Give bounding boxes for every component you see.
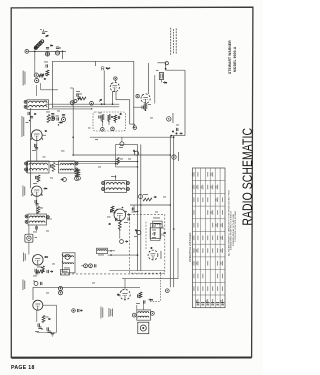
table tube-name bottom row labels bbox=[196, 302, 224, 305]
wire mid row y162-2 bbox=[70, 162, 116, 164]
resistor R8 with circle bbox=[75, 170, 79, 181]
resistor R5b in dashed box bbox=[114, 113, 122, 123]
capacitor C8 bbox=[57, 117, 59, 125]
tube V1 grid cap bbox=[114, 77, 117, 83]
resistor R4 in dashed box bbox=[99, 113, 104, 127]
B-plus bus wire pair A bbox=[138, 144, 141, 271]
chassis dashed separator bbox=[60, 273, 165, 275]
wire feeds to V2 bbox=[148, 63, 154, 104]
antenna terminal post bbox=[25, 50, 29, 54]
T4 right pins bbox=[47, 216, 53, 219]
resistor R1b beside RF coil bbox=[39, 73, 46, 80]
capacitor C11 below V3 bbox=[35, 196, 39, 214]
svg-text:C VOLUME CONTROL AT MAX: C VOLUME CONTROL AT MAX bbox=[234, 210, 237, 242]
vertical label antenna section bbox=[23, 71, 26, 86]
gang capacitor section C6 bbox=[62, 115, 66, 122]
tone pot circle bbox=[134, 229, 141, 237]
junction dots right of box bbox=[108, 250, 138, 256]
circled test point mid right bbox=[167, 113, 174, 123]
wire RF coil bottom bend bbox=[36, 83, 58, 96]
label R-7 and test arrows bbox=[101, 67, 110, 73]
speaker box bbox=[138, 322, 149, 334]
volume pot circle bbox=[133, 150, 139, 156]
audio output tube V4 50C5 bbox=[33, 254, 44, 265]
IF transformer T4 third bbox=[28, 214, 47, 225]
capacitor C12 below T4 bbox=[33, 225, 37, 232]
output transformer T7 box bbox=[137, 310, 151, 320]
svg-text:OPERATING VOLTAGES: OPERATING VOLTAGES bbox=[188, 232, 192, 262]
wire antenna drop bbox=[34, 51, 36, 61]
vertical wire x185 bbox=[184, 70, 186, 135]
variable capacitor C2A section bbox=[45, 45, 53, 56]
wire RF row upper bbox=[53, 106, 120, 108]
wire AVC drop left bbox=[26, 162, 28, 174]
antenna trimmer capacitor C1 bbox=[40, 29, 48, 37]
junction cluster at bus top bbox=[172, 125, 182, 135]
vertical text STEWART WARNER MODEL bbox=[228, 40, 237, 74]
table footnotes rotated bbox=[227, 190, 237, 256]
terminal box small bbox=[61, 270, 70, 276]
wire row solid above bbox=[109, 270, 165, 272]
variable cap rotor arrow bbox=[99, 99, 102, 105]
vertical title RADIO SCHEMATIC bbox=[239, 128, 255, 226]
wire rect right bbox=[43, 305, 57, 332]
arrow test point a bbox=[59, 122, 63, 124]
border frame of schematic sheet bbox=[11, 7, 253, 358]
capacitor C9 below V2 bbox=[32, 144, 38, 151]
B-plus bus wire pair B bbox=[170, 136, 173, 287]
tone section dashed box bbox=[130, 214, 165, 273]
resistor R12 in box bbox=[116, 158, 123, 165]
svg-text:PAGE 18: PAGE 18 bbox=[11, 365, 35, 371]
vertical wire x73 bbox=[72, 88, 74, 155]
wire tube V1 to bus bbox=[112, 91, 135, 124]
wire right drop bbox=[62, 51, 64, 59]
IF transformer T2 primary bbox=[28, 161, 50, 173]
filter capacitor C14 electrolytic bbox=[35, 323, 43, 332]
loop antenna L1 diagonal coil bbox=[34, 40, 44, 50]
RF coil upper circle bbox=[34, 73, 38, 77]
IF amplifier tube V3 12BA6 bbox=[32, 186, 42, 196]
RF coil lower circle bbox=[35, 79, 39, 83]
vertical label RF AMP 12BA6 bbox=[22, 116, 25, 137]
vertical label IF AMP 12BA6 second bbox=[23, 186, 26, 197]
tube V2 components below bbox=[133, 104, 151, 111]
svg-text:T: T bbox=[153, 232, 156, 238]
left misc components bottom bbox=[72, 309, 83, 313]
AVC filter dashed box bbox=[93, 112, 126, 131]
variable capacitor C2B section bbox=[55, 47, 60, 55]
wire left column bus bbox=[30, 108, 32, 188]
filter capacitor C15 electrolytic bbox=[47, 327, 52, 333]
resistor R2 horizontal bbox=[77, 94, 86, 100]
wire stub in box bbox=[95, 61, 97, 66]
wire row y205 bbox=[130, 204, 170, 206]
svg-text:STEWART WARNER: STEWART WARNER bbox=[228, 40, 232, 74]
tube V3 pin marks bbox=[31, 188, 48, 196]
misc label smudges bbox=[43, 100, 167, 294]
volume control box bbox=[116, 144, 138, 167]
wire V8 top bbox=[122, 248, 178, 289]
wire right feed top bbox=[158, 63, 186, 70]
gang capacitor section C5 bbox=[51, 114, 55, 121]
IF transformer T1 first bbox=[27, 100, 49, 110]
junction circle G1 bbox=[90, 101, 94, 105]
phono tube V7 dashed envelope bbox=[148, 250, 158, 260]
oscillator tube V2 dashed envelope bbox=[141, 94, 150, 103]
label cluster mid bbox=[132, 209, 137, 213]
wire bottom return bbox=[37, 310, 57, 332]
circled test point x174 bbox=[172, 152, 179, 161]
arrow test point c bbox=[44, 256, 48, 258]
tube V2 pin marks bbox=[31, 130, 48, 140]
table cell values text bbox=[192, 172, 223, 304]
wire antenna drop to coil bbox=[34, 61, 36, 73]
wire detector drop bbox=[28, 225, 30, 234]
T6 pin circles left bbox=[102, 182, 105, 191]
detector tube V6 12AV6 cluster bbox=[114, 209, 126, 221]
switch box bbox=[150, 228, 166, 239]
capacitor cluster below T1 pins bbox=[26, 112, 37, 123]
junction dot feed bbox=[165, 62, 169, 70]
padder capacitor C4 bbox=[76, 91, 82, 100]
V6 grid resistor bbox=[118, 221, 121, 231]
table title OPERATING VOLTAGES bbox=[188, 232, 192, 262]
speaker connection dots bbox=[62, 254, 63, 262]
IF transformer T6 detector bbox=[105, 181, 127, 193]
IF transformer T3 secondary bbox=[59, 161, 76, 173]
dashed wire to switch bbox=[150, 272, 161, 301]
page number PAGE 18 bbox=[11, 365, 35, 371]
T7 side circles bbox=[132, 312, 154, 318]
circled terminal right of dashed box bbox=[133, 124, 137, 129]
oscillator tube V1 12BE6 dashed envelope bbox=[110, 82, 119, 91]
misc junction dots on buses bbox=[72, 103, 138, 167]
phono pickup tube V8 dashed bbox=[120, 289, 130, 299]
circled tap on row bbox=[119, 137, 124, 148]
V6 surrounding components bbox=[107, 206, 130, 225]
resistor R7 between transformers bbox=[51, 163, 59, 172]
wire AC row bbox=[33, 286, 140, 288]
dial lamps pair bbox=[81, 264, 96, 268]
circled terminal 1 below dashed box bbox=[111, 127, 115, 131]
capacitor C3 with resistor R1 bbox=[42, 62, 49, 77]
V7 label smudge bbox=[160, 251, 163, 259]
T2 pin circles bbox=[25, 162, 28, 171]
wire T7 to V8 bbox=[137, 301, 144, 310]
wire V2 cathode bbox=[36, 141, 38, 162]
tube V2 grid cap bbox=[136, 95, 139, 98]
T6 pin circles right bbox=[126, 182, 129, 191]
resistor R9 above T4 bbox=[37, 207, 43, 214]
node junction antenna bbox=[34, 51, 36, 53]
filter resistor R11 bbox=[42, 316, 50, 323]
wire C17 down arrow bbox=[161, 80, 167, 84]
bus B junctions bbox=[170, 136, 175, 229]
T1 pin circles bbox=[24, 100, 27, 108]
rectifier tube V5 35W4 bbox=[33, 300, 43, 310]
vertical label AUDIO OUT 50C5 bbox=[23, 253, 26, 262]
line switch circles bbox=[59, 287, 63, 295]
V8 right components bbox=[136, 292, 153, 304]
wire V6 down bbox=[120, 229, 128, 243]
svg-text:RADIO SCHEMATIC: RADIO SCHEMATIC bbox=[239, 128, 255, 226]
RF-oscillator section box bbox=[53, 61, 134, 128]
terminal strip N panel bbox=[151, 223, 165, 240]
wire x73 top bend bbox=[70, 87, 73, 89]
capacitor C13 below V4 bbox=[33, 266, 44, 276]
oscillator coil box in dashed area bbox=[153, 218, 162, 228]
vertical notes text block bottom bbox=[101, 307, 114, 319]
wire bend to buses bbox=[170, 135, 185, 137]
wire to audio tube bbox=[28, 242, 30, 254]
T3 pin circles bbox=[75, 162, 78, 171]
converter tube V2 12BA6 bbox=[31, 130, 42, 141]
T4 pin circles bbox=[25, 215, 28, 223]
resistor R13 below bus bbox=[74, 169, 80, 180]
ground symbol bottom left bbox=[51, 334, 55, 337]
resistor R6 and capacitor C7 bbox=[46, 112, 59, 123]
capacitor C10 below T2 bbox=[33, 175, 40, 184]
resistor R5 in dashed box bbox=[108, 115, 114, 126]
wire oscillator tube feed bbox=[103, 71, 105, 105]
wire T6 top feed bbox=[111, 175, 116, 181]
bus A junctions bbox=[137, 161, 142, 256]
AVC bus wire bbox=[27, 161, 138, 163]
circled terminal 2 below dashed box bbox=[101, 128, 105, 132]
pilot lamp cluster bbox=[33, 280, 42, 285]
crystal detector box bbox=[25, 234, 37, 242]
resistor R14 on row bbox=[139, 194, 157, 201]
wire antenna bus bbox=[29, 50, 66, 52]
resistor network box left bbox=[97, 248, 108, 255]
wire T1 output row bbox=[49, 108, 93, 110]
wire long row y155 bbox=[73, 154, 170, 156]
tone box inner dashed separator bbox=[145, 222, 147, 249]
output transformer T5 box bbox=[63, 253, 76, 273]
V8 left dot bbox=[117, 294, 120, 296]
notes text two columns top middle bbox=[170, 28, 177, 55]
V7 grid dot bbox=[150, 247, 152, 249]
operating voltages table grid bbox=[193, 168, 226, 308]
oscillator coil L2 bbox=[70, 100, 77, 105]
capacitor C16 bbox=[133, 205, 138, 211]
wire long row y137 bbox=[90, 136, 174, 138]
vertical label PHONO MOTOR bbox=[23, 280, 26, 291]
circled point right of V8 bbox=[165, 289, 169, 293]
electrolytic capacitor C17 bbox=[156, 70, 164, 80]
wire oscillator row bbox=[45, 103, 119, 105]
node junction right antenna bbox=[62, 51, 64, 53]
resistor R10 row bbox=[36, 267, 53, 274]
wire AC drop bbox=[32, 287, 34, 300]
arrow test point b bbox=[61, 178, 67, 182]
svg-text:MODEL 9000-A: MODEL 9000-A bbox=[233, 46, 237, 72]
